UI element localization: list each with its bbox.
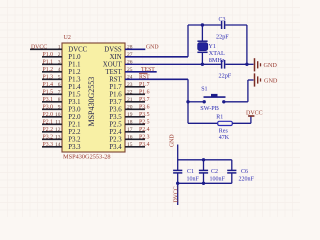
- svg-text:15: 15: [127, 142, 133, 148]
- svg-text:Res: Res: [219, 128, 229, 134]
- svg-text:16: 16: [127, 135, 133, 141]
- svg-text:P3.6: P3.6: [139, 105, 150, 111]
- svg-text:P1.1: P1.1: [68, 62, 80, 69]
- svg-text:XTAL: XTAL: [209, 50, 225, 57]
- svg-text:C6: C6: [241, 169, 248, 175]
- svg-text:MSP430G2553: MSP430G2553: [87, 77, 96, 127]
- svg-text:GND: GND: [169, 134, 175, 147]
- svg-text:27: 27: [127, 52, 133, 58]
- svg-text:P2.1: P2.1: [68, 122, 80, 129]
- svg-text:P2.4: P2.4: [109, 129, 122, 136]
- svg-text:MSP430G2553-28: MSP430G2553-28: [63, 153, 111, 160]
- svg-text:P1.2: P1.2: [43, 67, 54, 73]
- svg-text:GND: GND: [146, 45, 159, 51]
- svg-text:22pF: 22pF: [219, 73, 232, 80]
- svg-text:XIN: XIN: [110, 54, 122, 61]
- svg-text:GND: GND: [264, 62, 278, 69]
- svg-text:U2: U2: [64, 35, 71, 41]
- svg-text:DVCC: DVCC: [68, 47, 87, 54]
- svg-text:P2.3: P2.3: [139, 135, 150, 141]
- svg-text:13: 13: [55, 135, 61, 141]
- svg-text:25: 25: [127, 67, 133, 73]
- svg-text:XOUT: XOUT: [103, 62, 123, 69]
- svg-text:R1: R1: [216, 115, 223, 121]
- svg-text:P3.1: P3.1: [68, 99, 80, 106]
- svg-text:P2.0: P2.0: [68, 114, 81, 121]
- svg-text:P3.3: P3.3: [68, 144, 81, 151]
- svg-text:22pF: 22pF: [216, 34, 229, 41]
- svg-text:P3.7: P3.7: [139, 97, 150, 103]
- svg-text:P3.2: P3.2: [68, 137, 81, 144]
- svg-text:2: 2: [58, 52, 61, 58]
- svg-text:17: 17: [127, 127, 133, 133]
- svg-text:P1.4: P1.4: [43, 82, 54, 88]
- svg-text:P2.0: P2.0: [43, 112, 54, 118]
- svg-text:P2.2: P2.2: [68, 129, 81, 136]
- svg-text:P1.0: P1.0: [68, 54, 81, 61]
- svg-text:28: 28: [127, 45, 133, 51]
- svg-text:P1.0: P1.0: [43, 52, 54, 58]
- svg-text:P1.5: P1.5: [43, 90, 54, 96]
- svg-text:P2.4: P2.4: [139, 127, 150, 133]
- svg-text:8: 8: [58, 97, 61, 103]
- svg-text:P1.7: P1.7: [109, 84, 122, 91]
- svg-text:P1.5: P1.5: [68, 92, 81, 99]
- svg-text:P1.1: P1.1: [43, 60, 54, 66]
- svg-text:P3.7: P3.7: [109, 99, 122, 106]
- svg-text:P2.3: P2.3: [109, 137, 122, 144]
- svg-text:19: 19: [127, 112, 133, 118]
- svg-text:P3.6: P3.6: [109, 107, 122, 114]
- svg-text:P1.7: P1.7: [139, 82, 150, 88]
- svg-text:20: 20: [127, 105, 133, 111]
- svg-text:P3.0: P3.0: [43, 105, 54, 111]
- svg-text:7: 7: [58, 90, 61, 96]
- svg-text:P3.4: P3.4: [109, 144, 122, 151]
- svg-text:P1.6: P1.6: [109, 92, 122, 99]
- svg-text:P3.0: P3.0: [68, 107, 81, 114]
- svg-text:RST: RST: [139, 75, 150, 81]
- svg-text:P2.5: P2.5: [139, 120, 150, 126]
- svg-text:9: 9: [58, 105, 61, 111]
- svg-text:TEST: TEST: [105, 69, 122, 76]
- svg-text:DVCC: DVCC: [246, 111, 263, 117]
- svg-text:P3.5: P3.5: [139, 112, 150, 118]
- svg-text:P3.3: P3.3: [43, 142, 54, 148]
- svg-text:P3.5: P3.5: [109, 114, 122, 121]
- svg-text:12: 12: [55, 127, 61, 133]
- svg-text:C2: C2: [211, 169, 218, 175]
- svg-text:S1: S1: [201, 86, 207, 92]
- svg-text:GND: GND: [264, 78, 278, 85]
- svg-text:3: 3: [58, 60, 61, 66]
- svg-text:SW-PB: SW-PB: [200, 105, 219, 112]
- svg-text:6: 6: [58, 82, 61, 88]
- svg-text:C3: C3: [219, 17, 226, 23]
- svg-text:24: 24: [127, 75, 133, 81]
- svg-text:10: 10: [55, 112, 61, 118]
- svg-text:5: 5: [58, 75, 61, 81]
- svg-text:P3.4: P3.4: [139, 142, 150, 148]
- svg-text:18: 18: [127, 120, 133, 126]
- svg-text:11: 11: [55, 120, 61, 126]
- svg-text:220nF: 220nF: [239, 177, 255, 183]
- svg-text:100nF: 100nF: [210, 177, 226, 183]
- svg-text:P2.5: P2.5: [109, 122, 122, 129]
- svg-text:DVCC: DVCC: [31, 45, 47, 51]
- svg-text:P3.2: P3.2: [43, 135, 54, 141]
- svg-text:P2.2: P2.2: [43, 127, 54, 133]
- svg-text:P2.1: P2.1: [43, 120, 54, 126]
- svg-text:14: 14: [55, 142, 61, 148]
- svg-text:23: 23: [127, 82, 133, 88]
- svg-text:P1.2: P1.2: [68, 69, 81, 76]
- svg-text:47K: 47K: [219, 135, 230, 141]
- svg-text:DVSS: DVSS: [104, 47, 122, 54]
- svg-text:21: 21: [127, 97, 133, 103]
- svg-text:10nF: 10nF: [187, 177, 200, 183]
- svg-text:P1.3: P1.3: [68, 77, 81, 84]
- svg-text:4: 4: [58, 67, 61, 73]
- svg-text:TEST: TEST: [141, 67, 155, 73]
- svg-text:P1.3: P1.3: [43, 75, 54, 81]
- svg-text:RST: RST: [109, 77, 122, 84]
- svg-text:C1: C1: [187, 169, 194, 175]
- svg-text:P1.4: P1.4: [68, 84, 81, 91]
- svg-text:DVCC: DVCC: [174, 186, 180, 202]
- svg-text:P3.1: P3.1: [43, 97, 54, 103]
- svg-text:1: 1: [58, 45, 61, 51]
- svg-text:22: 22: [127, 90, 133, 96]
- svg-text:P1.6: P1.6: [139, 90, 150, 96]
- svg-text:8MHz: 8MHz: [209, 57, 225, 64]
